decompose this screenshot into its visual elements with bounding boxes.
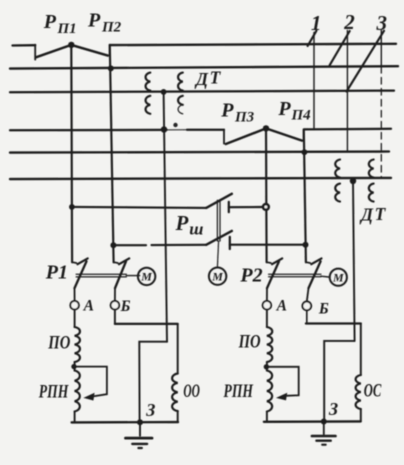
wire: bus 4 left segment <box>10 130 224 144</box>
svg-text:Т: Т <box>210 68 222 88</box>
node: Р2 pole Б feed junction <box>303 242 309 248</box>
ground symbol transformer 1 <box>126 422 153 448</box>
svg-text:А: А <box>83 297 94 314</box>
terminal Б of transformer 2 <box>302 302 311 311</box>
contactor Р1 pole Б fixed contact <box>114 258 130 264</box>
label ДТ transformer 1 <box>194 68 222 89</box>
wire: transformer 1 step to earth leg <box>139 342 167 423</box>
svg-text:2: 2 <box>343 10 355 34</box>
node: tap junction transformer 2 <box>264 364 269 369</box>
wire: Р1 motor lead <box>126 275 139 277</box>
svg-text:Р: Р <box>220 99 234 121</box>
terminal А of transformer 1 <box>70 301 79 310</box>
node: Рш lower feed junction <box>110 242 116 248</box>
contactor Р1 pole A fixed contact <box>72 258 88 264</box>
switch Рш upper knife blade <box>206 194 232 208</box>
Рш mechanical linkage <box>217 200 220 241</box>
feeder 1 vertical <box>313 33 315 130</box>
wire: terminal А2 to winding ПО <box>266 310 268 328</box>
wire: down to winding ОО <box>177 324 179 374</box>
switch РП3 blade <box>226 128 266 144</box>
contactor Р1 pole Б blade <box>115 261 126 301</box>
switch Рш upper contact bar <box>228 202 230 212</box>
svg-text:3: 3 <box>376 11 388 35</box>
wire: transformer 2 node horizontal <box>306 322 361 324</box>
switch РП4 blade <box>266 128 302 140</box>
wire: vertical from bus6 tap down to transformer 2 node <box>353 181 355 341</box>
wire: ПО to РПН link transformer 2 <box>266 362 268 371</box>
wire: terminal А1 to winding ПО <box>74 310 76 328</box>
svg-text:ПО: ПО <box>48 332 71 353</box>
switch РП2 blade <box>71 45 108 56</box>
svg-text:П1: П1 <box>57 21 77 37</box>
node: bus2 junction <box>108 65 114 71</box>
svg-text:Д: Д <box>359 205 374 225</box>
contactor Р2 pole Б fixed contact <box>306 258 322 264</box>
node: Рш upper feed junction <box>69 204 75 210</box>
wire: Рш lower knife left feed <box>113 244 206 247</box>
node: bus5 junction <box>302 149 308 155</box>
tap changer arrow circuit of transformer 1 <box>74 367 107 401</box>
svg-text:М: М <box>140 270 152 284</box>
wire: down to winding ОС <box>360 324 362 376</box>
svg-text:1: 1 <box>311 11 322 35</box>
wire: Рш motor stem <box>217 241 218 267</box>
node: bus3 tap junction <box>161 89 167 95</box>
winding ОО of transformer 1 <box>172 374 178 412</box>
contactor Р2 linkage <box>269 274 321 277</box>
terminal А of transformer 2 <box>263 301 272 310</box>
svg-text:ОС: ОС <box>364 381 382 402</box>
wire: transformer 2 earth bus <box>264 420 361 423</box>
label РП3 <box>220 99 254 125</box>
tap changer winding РПН of transformer 2 <box>267 371 272 412</box>
svg-text:Б: Б <box>120 298 131 315</box>
winding ПО of transformer 2 <box>267 327 272 362</box>
wire: Рш upper knife left feed <box>72 207 206 208</box>
winding ОС of transformer 2 <box>356 375 361 409</box>
wire: transformer 1 node horizontal <box>115 323 178 325</box>
wire: bus 5 <box>10 152 389 153</box>
wire: ОО to earth bus <box>177 411 179 422</box>
wire: bus 3 <box>10 91 394 93</box>
svg-text:РПН: РПН <box>223 381 254 402</box>
svg-text:ОО: ОО <box>183 381 200 402</box>
motor М of Р2 <box>330 269 347 286</box>
wire: bus 2 <box>10 66 398 68</box>
wire: ПО to РПН link <box>74 362 76 371</box>
wire: transformer 2 step to earth leg <box>324 341 354 422</box>
label РП4 <box>277 98 311 124</box>
svg-text:Р1: Р1 <box>45 262 68 284</box>
svg-text:З: З <box>145 400 155 420</box>
feeder 2 vertical <box>346 31 348 152</box>
wire: bus 6 <box>10 178 391 179</box>
node: earth junction З transformer 1 <box>137 419 143 425</box>
ground symbol transformer 2 <box>312 422 336 445</box>
winding ПО of transformer 1 <box>75 327 80 362</box>
wire: РПН to earth bus <box>74 412 76 423</box>
node: bus6 tap junction ДТ <box>350 178 356 184</box>
svg-text:ПО: ПО <box>238 332 261 353</box>
wire: Рш lower knife right lead <box>230 244 306 246</box>
svg-text:Р: Р <box>277 98 291 120</box>
switch Рш lower knife blade <box>206 231 232 245</box>
wire: bus 1 right segment <box>110 44 396 55</box>
svg-text:П4: П4 <box>291 108 312 124</box>
contactor Р2 pole A blade <box>267 261 279 301</box>
wire: vertical from РП1/РП2 junction down to contactor Р1 pole A <box>70 45 73 262</box>
wire: terminal Б1 down <box>114 310 116 324</box>
transformer 2 differential transformer ДТ coil b <box>369 160 374 202</box>
feeder 2 diagonal tap to bus2 <box>330 31 350 65</box>
transformer 1 differential transformer ДТ coil b <box>178 73 183 114</box>
label Рш <box>175 211 204 238</box>
contactor Р2 pole Б blade <box>307 261 321 301</box>
svg-text:З: З <box>328 399 338 419</box>
svg-text:М: М <box>211 269 223 283</box>
svg-text:П2: П2 <box>101 20 122 36</box>
node: earth junction З transformer 2 <box>321 419 327 425</box>
contactor Р2 pole A fixed contact <box>267 258 283 264</box>
node: РП3/РП4 junction <box>263 125 269 131</box>
tap changer winding РПН of transformer 1 <box>75 371 80 412</box>
svg-text:Р2: Р2 <box>239 265 262 287</box>
svg-text:Т: Т <box>375 204 387 224</box>
wire: bus 4 right segment <box>304 129 391 141</box>
node: bus4 junction blob <box>161 126 167 132</box>
terminal Б of transformer 1 <box>111 301 120 310</box>
svg-text:Б: Б <box>318 300 329 317</box>
wire: Рш upper knife right lead <box>229 206 263 208</box>
transformer 2 differential transformer ДТ coil a <box>335 160 340 202</box>
label РП2 <box>87 10 122 36</box>
contactor Р1 pole A blade <box>75 261 87 301</box>
svg-text:Р: Р <box>175 211 189 235</box>
wire: bus 1 left segment <box>13 45 36 60</box>
svg-text:Р: Р <box>43 11 57 33</box>
wire: terminal Б2 down <box>306 310 308 323</box>
wire: Р2 motor lead <box>321 275 329 278</box>
wire: vertical from bus1 right segment down to contactor Р1 pole Б <box>110 45 114 262</box>
svg-text:П3: П3 <box>234 110 255 126</box>
wire: vertical from РП3/РП4 junction down to contactor Р2 pole A <box>265 128 268 262</box>
motor М of Рш <box>209 268 226 285</box>
wire: transformer 1 earth bus <box>72 421 178 424</box>
node: tap junction transformer 1 <box>71 364 76 369</box>
svg-text:Р: Р <box>87 10 101 32</box>
svg-text:ш: ш <box>189 220 203 239</box>
node: Рш contact circle on Р2 feed <box>263 204 269 210</box>
transformer 1 differential transformer ДТ coil a <box>146 73 151 114</box>
wire: ОС to earth bus <box>360 409 362 422</box>
tap changer arrow circuit of transformer 2 <box>266 367 298 401</box>
switch Рш lower contact bar <box>229 237 231 249</box>
contactor Р1 linkage <box>76 274 126 277</box>
switch РП1 blade <box>36 45 71 57</box>
svg-text:Д: Д <box>194 69 209 89</box>
wire: vertical from bus4 right segment down to contactor Р2 pole Б <box>304 129 306 262</box>
label РП1 <box>43 11 77 37</box>
motor М of Р1 <box>138 268 155 285</box>
wire: РПН to earth bus transformer 2 <box>266 412 268 422</box>
feeder 3 vertical <box>380 31 382 179</box>
label ДТ transformer 2 <box>359 204 387 225</box>
wire: vertical from bus3 tap down through Рш lines <box>164 92 167 342</box>
feeder 3 diagonal tap to bus3 <box>347 31 385 92</box>
svg-text:М: М <box>332 270 344 284</box>
svg-text:А: А <box>276 297 287 314</box>
feeder 1 diagonal tap to bus1 <box>308 31 317 46</box>
ink speck <box>173 123 177 127</box>
svg-text:РПН: РПН <box>38 382 69 403</box>
node: РП1/РП2 junction <box>68 42 74 48</box>
